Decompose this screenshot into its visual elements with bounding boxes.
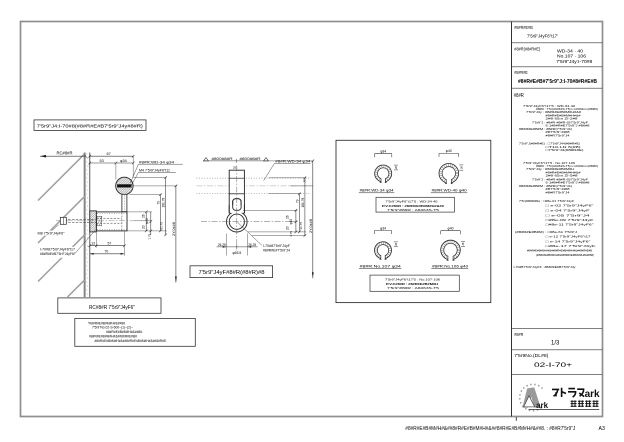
- tapping screw through rail: [117, 185, 131, 188]
- svg-text:□ e-02 7'5r9"J4yF6": □ e-02 7'5r9"J4yF6": [546, 204, 594, 208]
- diameter dimension &#966;34: [375, 153, 392, 155]
- svg-text:25: 25: [303, 179, 307, 183]
- svg-text:I-70#87'5r9"J4yF: I-70#87'5r9"J4yF: [263, 244, 291, 248]
- arm hidden bore dashed lines: [96, 217, 121, 219]
- svg-text:RC#8#R: RC#8#R: [57, 151, 73, 156]
- bracket stem front view: [229, 170, 244, 213]
- svg-text:#8#R: #8#R: [514, 93, 524, 99]
- svg-text:#8#R:No.106 φ40: #8#R:No.106 φ40: [432, 264, 468, 268]
- svg-text:7'5r9"J4yF6"t17': 7'5r9"J4yF6"t17': [527, 33, 558, 39]
- front dim chain 26 20: [295, 210, 297, 232]
- svg-text:□ e-14 7'5r9"J4yF6": □ e-14 7'5r9"J4yF6": [546, 239, 591, 243]
- svg-text:φ40: φ40: [145, 218, 149, 224]
- svg-text:79: 79: [156, 201, 160, 205]
- svg-text:No.107 · 106: No.107 · 106: [557, 54, 587, 59]
- side view long dimension to floor: [175, 186, 177, 283]
- dimension 70: [90, 253, 125, 255]
- svg-text:#8#R:WD-34 φ34: #8#R:WD-34 φ34: [275, 160, 310, 164]
- svg-text:#8#R:WD-40 φ40: #8#R:WD-40 φ40: [432, 189, 467, 193]
- extension lines below arm: [89, 233, 91, 256]
- svg-text:7'5r9"No.02-S-600~(1)~(2)~: 7'5r9"No.02-S-600~(1)~(2)~: [92, 326, 133, 330]
- svg-text:φ34: φ34: [120, 159, 127, 163]
- svg-text:#8#R:WD-34 φ34: #8#R:WD-34 φ34: [360, 189, 394, 193]
- svg-text:□7'5r9"J4(#8#R#E): □7'5r9"J4(#8#R#E): [546, 148, 584, 152]
- svg-text:#8#R#E#B#M#H#&##8#R#E#B#M#H#&#: #8#R#E#B#M#H#&##8#R#E#B#M#H#&##8#R#E#B#M…: [405, 426, 575, 432]
- svg-text:#800#8#R: #800#8#R: [212, 157, 234, 161]
- svg-text:7'5r9"#8#R : A6063S-T5: 7'5r9"#8#R : A6063S-T5: [387, 208, 439, 212]
- dimension 13 and 57: [90, 245, 125, 247]
- svg-text:φ40: φ40: [446, 149, 452, 153]
- leader to I-70 label front view: [238, 222, 262, 245]
- bracket type label box: [34, 120, 146, 130]
- svg-text:φ40: φ40: [448, 227, 454, 231]
- fold mark tick: [515, 417, 517, 421]
- svg-text:φ40: φ40: [289, 219, 293, 225]
- svg-text:ark: ark: [536, 401, 549, 410]
- wall concrete face line: [83, 153, 85, 298]
- anchor bolt axis centerline: [56, 220, 134, 222]
- side view dim chain 20: [150, 212, 152, 235]
- svg-text:1.75: 1.75: [147, 233, 151, 239]
- svg-text:1.75: 1.75: [289, 231, 293, 237]
- handrail centerline front view: [197, 185, 312, 187]
- svg-text:7'5r9No.(DL#8): 7'5r9No.(DL#8): [514, 353, 549, 358]
- svg-text:7'5r9"#8#R : A6063S-T5: 7'5r9"#8#R : A6063S-T5: [387, 286, 439, 290]
- arm knurl dotted rows: [97, 213, 126, 215]
- side view dim chain 79: [159, 195, 161, 231]
- diameter dimension &#966;40: [441, 230, 461, 232]
- side view right extension lines: [134, 177, 167, 179]
- wall mortar dots: [86, 153, 89, 156]
- svg-text:#8#R7'5r9"J4: #8#R7'5r9"J4: [546, 190, 570, 194]
- svg-text:φ34: φ34: [380, 150, 386, 154]
- svg-text:□#8e-11 7'5r9"J4yF6": □#8e-11 7'5r9"J4yF6": [546, 222, 594, 226]
- M8 turn-nut label: [52, 225, 59, 231]
- logo underline: [529, 409, 600, 411]
- svg-text:20: 20: [285, 226, 289, 230]
- svg-text:1/3: 1/3: [551, 341, 560, 347]
- svg-text:□#8e-17 7'5r9"J4yF: □#8e-17 7'5r9"J4yF: [546, 244, 596, 248]
- RC substrate mortar label box: [58, 298, 161, 313]
- title block separator: [512, 42, 603, 44]
- dimension 53 and dia34: [90, 162, 133, 164]
- stem slot front view: [233, 199, 241, 211]
- svg-text:#8#R#E#B7'5r9"J4yF6": #8#R#E#B7'5r9"J4yF6": [40, 252, 76, 256]
- svg-text:#8#R: #8#R: [514, 332, 524, 337]
- anchor bolt head: [60, 217, 66, 224]
- svg-text:7'5r9"J4y:I-70#8: 7'5r9"J4y:I-70#8: [556, 59, 593, 64]
- bracket stem side view: [122, 194, 127, 211]
- svg-text:□ e-04 7'5r9"J4yF: □ e-04 7'5r9"J4yF: [546, 209, 590, 213]
- svg-text:70: 70: [105, 250, 109, 254]
- company logo kabushiki kaisha: [571, 400, 577, 407]
- front view bottom extension lines: [226, 234, 228, 256]
- company logo gear arc: [520, 384, 543, 410]
- svg-text:#8#R7'5r9"J4: #8#R7'5r9"J4: [546, 133, 570, 137]
- extension lines to rail circle: [132, 156, 134, 177]
- slot width mini dimension: [394, 164, 398, 166]
- front dim chain 181.78: [304, 178, 306, 236]
- diameter dimension &#966;34: [374, 230, 391, 232]
- svg-text:2Y.0±#8: 2Y.0±#8: [172, 222, 176, 236]
- front view centerlines: [236, 166, 238, 251]
- spec box WD series: [376, 197, 454, 212]
- svg-text:53: 53: [100, 159, 104, 163]
- svg-text:#8#R#E: #8#R#E: [514, 70, 528, 75]
- slot width mini dimension: [459, 164, 463, 166]
- handrail section ring No.107: [375, 242, 392, 259]
- slot width mini dimension: [461, 241, 465, 243]
- svg-text:57: 57: [108, 242, 112, 246]
- svg-text:ark: ark: [585, 389, 600, 400]
- leader to bracket: [74, 230, 96, 255]
- concrete hatch strokes: [38, 154, 84, 200]
- svg-text:#8#R:No.107 φ34: #8#R:No.107 φ34: [360, 264, 401, 268]
- ring detail enclosure box: [336, 140, 491, 302]
- svg-text:(#8#R#E#B#M) : □#8e-61 7'5r9": (#8#R#E#B#M) : □#8e-61 7'5r9"J: [515, 230, 578, 234]
- svg-text:7'5r9"J4yF#8#R(#8#R)#8: 7'5r9"J4yF#8#R(#8#R)#8: [199, 270, 265, 276]
- svg-text:26.25: 26.25: [218, 243, 226, 247]
- title block separator: [512, 373, 603, 375]
- title block separator: [512, 87, 603, 89]
- svg-text:M4 7'5r9"J4yF6"t11: M4 7'5r9"J4yF6"t11: [139, 169, 170, 173]
- svg-text:7'5r9"J4:I-70#8(#8#R#E#B7'5r9": 7'5r9"J4:I-70#8(#8#R#E#B7'5r9"J4y#8#R): [37, 123, 144, 128]
- svg-text:20: 20: [142, 225, 146, 229]
- svg-text:#800#8#R: #800#8#R: [240, 157, 262, 161]
- bracket wall flange side view: [90, 211, 97, 232]
- svg-text:26.25: 26.25: [248, 243, 256, 247]
- svg-text:#8#R#E#B#M#H#&##8#R#E#B#M#H#&#: #8#R#E#B#M#H#&##8#R#E#B#M#H#&##8#R#E.: [95, 339, 168, 343]
- slot width mini dimension: [394, 241, 398, 243]
- svg-text:φ65.5: φ65.5: [232, 251, 241, 255]
- svg-text:26: 26: [142, 214, 146, 218]
- svg-text:7'5r(#8#R#E) : □#8e-01 7'5r9": 7'5r(#8#R#E) : □#8e-01 7'5r9"J4yF: [519, 199, 574, 203]
- svg-text:#8#R#E#B#M#H#&##8#R#E#B#M#H#&#: #8#R#E#B#M#H#&##8#R#E#B#M#H#&##8#R#E#B: [527, 249, 592, 253]
- anchor bolt dashed shank: [61, 218, 97, 220]
- svg-text:(#8#R#E#B#M#H#&##8#R#E#B#M#H#&: (#8#R#E#B#M#H#&##8#R#E#B#M#H#&##8#): [536, 253, 594, 257]
- svg-text:13: 13: [91, 242, 95, 246]
- svg-text:A3: A3: [599, 426, 605, 432]
- company logo atlas katakana: [552, 388, 584, 397]
- svg-text:181.78: 181.78: [162, 198, 166, 208]
- svg-text:I-70#87'5r9"J4yF6"t17: I-70#87'5r9"J4yF6"t17: [40, 247, 75, 251]
- svg-text:79: 79: [295, 199, 299, 203]
- front view long dimension to floor: [312, 161, 314, 278]
- dimension 67 top: [90, 155, 133, 157]
- svg-text:I-70#87'5r9"J4yF6 : #8#R#E#B7': I-70#87'5r9"J4yF6 : #8#R#E#B7'5r9"J4y: [514, 265, 577, 269]
- svg-text:#8#R#E#7'5r9"J4: #8#R#E#7'5r9"J4: [263, 248, 290, 252]
- title block separator: [512, 327, 603, 329]
- bracket boss outer circle front view: [227, 211, 248, 232]
- side view dim chain phi40: [145, 212, 147, 231]
- installation note box: [75, 318, 196, 346]
- svg-text:25: 25: [233, 166, 237, 170]
- front view right extension lines: [269, 160, 314, 162]
- svg-text:M8 7'5r9"J4yF6": M8 7'5r9"J4yF6": [38, 232, 66, 236]
- bracket bore inner circle front view: [229, 214, 244, 229]
- svg-text:181.78: 181.78: [301, 198, 305, 208]
- stem slot redraw: [233, 199, 241, 211]
- turn-nut hidden detail: [97, 216, 102, 226]
- svg-text:#8#R#E#B: #8#R#E#B: [514, 25, 533, 30]
- front dim chain 79: [298, 194, 300, 232]
- svg-text:□ e-12 7'5r9"J4yF6"t17: □ e-12 7'5r9"J4yF6"t17: [546, 235, 591, 239]
- svg-text:02-I-70+: 02-I-70+: [534, 363, 573, 369]
- handrail section ring WD-40: [439, 164, 459, 184]
- svg-text:#8#R(#8#R#E): #8#R(#8#R#E): [514, 47, 540, 52]
- svg-text:#8#R:WD-34 φ34: #8#R:WD-34 φ34: [139, 160, 174, 164]
- hidden handrail dotted lines front view: [197, 177, 312, 179]
- svg-text:#8#R#E#B#M#H#&##8#R#E#B#: #8#R#E#B#M#H#&##8#R#E#B#: [89, 334, 138, 338]
- svg-text:2Y.0±#8: 2Y.0±#8: [309, 219, 313, 233]
- bracket arm side view: [96, 212, 127, 231]
- side view dim chain 181.78: [165, 178, 167, 235]
- wall finish face line: [89, 153, 91, 298]
- diameter dimension &#966;40: [439, 152, 459, 154]
- svg-text:#8#R#E#B#M#H#&##8#.: #8#R#E#B#M#H#&##8#.: [106, 330, 143, 334]
- spacing annotation 800 pitch: [203, 160, 269, 162]
- title block separator: [512, 66, 603, 68]
- bracket development label box: [190, 266, 273, 278]
- svg-text:26: 26: [285, 215, 289, 219]
- title block left border: [511, 22, 513, 417]
- svg-text:φ34: φ34: [380, 226, 386, 230]
- spec box No series: [370, 275, 459, 291]
- svg-text:21.75: 21.75: [160, 222, 164, 230]
- dimension 26.25 26.25: [217, 246, 258, 248]
- svg-text:21.75: 21.75: [299, 222, 303, 230]
- company logo A mark: [522, 387, 540, 407]
- title block separator: [512, 349, 603, 351]
- svg-text:□ e-05 7'5r9"J4: □ e-05 7'5r9"J4: [546, 213, 591, 217]
- svg-text:67: 67: [107, 152, 111, 156]
- svg-text:RC#8#R 7'5r9"J4yF6": RC#8#R 7'5r9"J4yF6": [89, 305, 135, 311]
- handrail section ring No.106: [441, 240, 461, 260]
- I-70 bracket label side view: [39, 247, 77, 258]
- handrail section ring WD-34: [375, 165, 392, 182]
- svg-text:#8#R#E#B#7'5r9"J:I-70#8#R#E#B: #8#R#E#B#7'5r9"J:I-70#8#R#E#B: [518, 79, 597, 85]
